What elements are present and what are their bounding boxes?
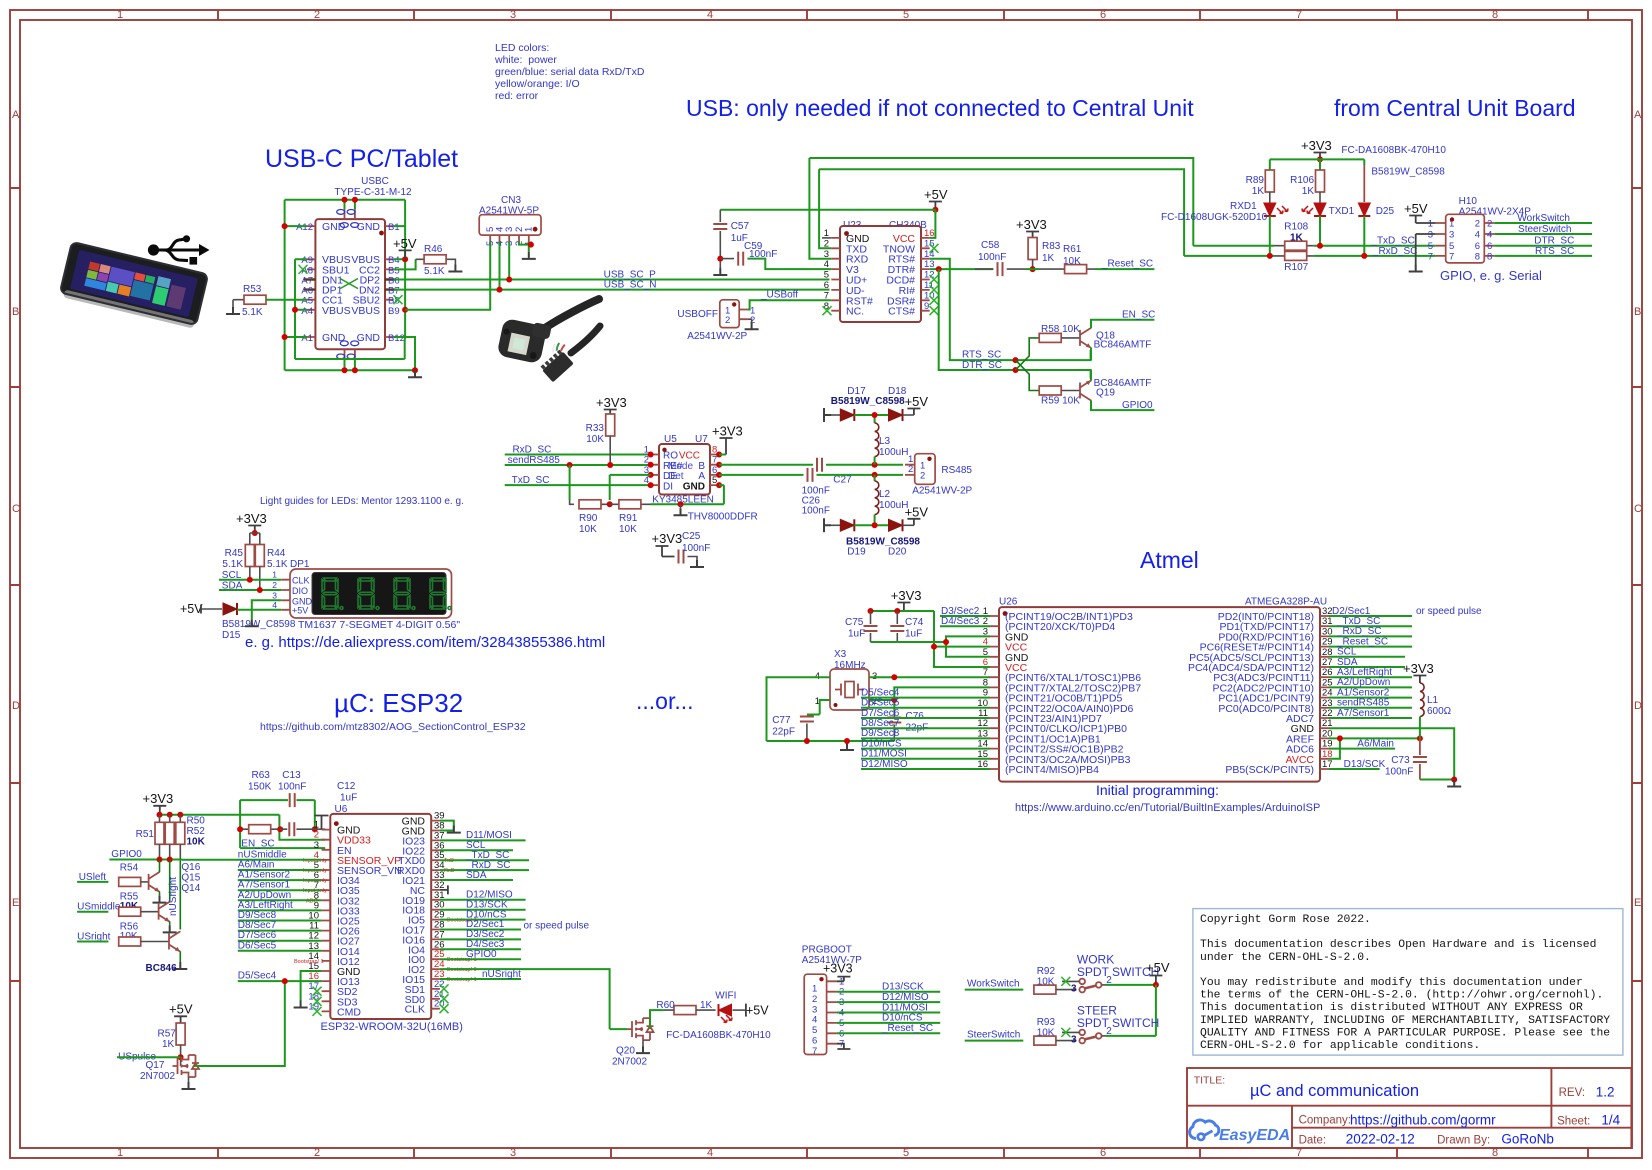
svg-text:1: 1 xyxy=(117,1147,123,1159)
svg-text:SPDT SWITCH: SPDT SWITCH xyxy=(1077,1016,1159,1030)
svg-text:C25: C25 xyxy=(682,531,701,542)
svg-text:2: 2 xyxy=(1475,219,1480,230)
capacitor C59 xyxy=(720,241,831,269)
power +5V H10 xyxy=(1404,201,1436,223)
svg-text:the terms of the CERN-OHL-S-2.: the terms of the CERN-OHL-S-2.0. (http:/… xyxy=(1200,990,1603,1002)
svg-text:5: 5 xyxy=(903,1147,909,1159)
svg-text:100nF: 100nF xyxy=(978,252,1006,263)
power +5V D20 xyxy=(905,505,929,526)
svg-text:GPIO0: GPIO0 xyxy=(466,949,497,960)
svg-text:R90: R90 xyxy=(579,513,598,524)
svg-text:Company:: Company: xyxy=(1299,1115,1351,1127)
power +3V3 atmega xyxy=(891,588,922,611)
resistor R90 xyxy=(570,500,610,535)
svg-text:C57: C57 xyxy=(731,221,750,232)
svg-text:B5819W_C8598: B5819W_C8598 xyxy=(222,619,296,630)
svg-text:100nF: 100nF xyxy=(278,782,306,793)
svg-text:WorkSwitch: WorkSwitch xyxy=(1517,213,1570,224)
svg-text:B: B xyxy=(1634,306,1641,318)
svg-text:R83: R83 xyxy=(1042,241,1061,252)
svg-text:+3V3: +3V3 xyxy=(652,531,683,546)
svg-text:R58 10K: R58 10K xyxy=(1041,324,1080,335)
svg-text:A9: A9 xyxy=(301,255,313,266)
svg-text:+3V3: +3V3 xyxy=(143,791,174,806)
svg-text:10K: 10K xyxy=(579,524,597,535)
connector RS485 A2541WV-2P xyxy=(905,454,973,497)
wire TxD_SC row xyxy=(505,484,651,486)
tablet photo xyxy=(59,242,208,329)
svg-text:yellow/orange: I/O: yellow/orange: I/O xyxy=(495,78,580,90)
resistor R33 xyxy=(586,414,615,465)
connector USBOFF A2541WV-2P xyxy=(677,300,755,342)
svg-text:1: 1 xyxy=(812,984,817,995)
svg-text:RS485: RS485 xyxy=(941,465,972,476)
svg-text:3: 3 xyxy=(1071,1035,1077,1046)
power +3V3 display xyxy=(236,511,267,533)
svg-text:VCC: VCC xyxy=(679,451,700,462)
svg-text:9: 9 xyxy=(924,301,929,312)
svg-text:A: A xyxy=(1634,109,1642,121)
svg-text:+3V3: +3V3 xyxy=(596,395,627,410)
svg-text:Atmel: Atmel xyxy=(1140,547,1199,573)
wire RxD_SC row xyxy=(505,454,651,456)
capacitor C73 xyxy=(1419,738,1421,755)
svg-text:GPIO0: GPIO0 xyxy=(111,849,142,860)
svg-text:4: 4 xyxy=(1487,230,1492,241)
wire crystal pin1 xyxy=(820,700,830,715)
svg-text:2: 2 xyxy=(908,464,913,475)
no-connect A8 xyxy=(299,265,308,274)
svg-text:NC.: NC. xyxy=(846,306,864,318)
svg-text:Q16: Q16 xyxy=(181,862,200,873)
svg-text:USB_SC_N: USB_SC_N xyxy=(604,280,657,291)
ground D19 xyxy=(824,518,831,532)
transistor Q19 BC846AMTF xyxy=(1080,381,1091,401)
svg-text:DI: DI xyxy=(663,481,673,492)
svg-text:...or...: ...or... xyxy=(636,688,694,714)
svg-text:A: A xyxy=(12,109,20,121)
power +3V3 U7 xyxy=(712,424,743,455)
svg-text:10K: 10K xyxy=(187,837,206,848)
capacitor C12 xyxy=(280,828,325,830)
wire: TXD vertical loop xyxy=(819,169,1184,256)
svg-text:R46: R46 xyxy=(424,244,443,255)
svg-text:Date:: Date: xyxy=(1299,1135,1327,1147)
resistor R108 xyxy=(1274,222,1314,251)
ground usbc bottom xyxy=(408,370,422,377)
svg-text:FC-DA1608BK-470H10: FC-DA1608BK-470H10 xyxy=(1341,145,1446,156)
svg-text:D4/Sec3: D4/Sec3 xyxy=(941,616,980,627)
svg-text:3: 3 xyxy=(510,1147,516,1159)
resistor R57 xyxy=(176,1023,185,1045)
svg-text:+5V: +5V xyxy=(169,1002,193,1017)
svg-text:USB: only needed if not connec: USB: only needed if not connected to Cen… xyxy=(686,95,1194,121)
svg-text:5: 5 xyxy=(812,1025,817,1036)
svg-text:R45: R45 xyxy=(225,548,244,559)
wire: USBoff xyxy=(748,300,832,309)
svg-text:C: C xyxy=(12,503,20,515)
svg-text:TXD1: TXD1 xyxy=(1329,206,1355,217)
wire: swap cross xyxy=(1016,338,1040,391)
svg-text:D12/MISO: D12/MISO xyxy=(882,992,929,1003)
svg-text:https://www.arduino.cc/en/Tuto: https://www.arduino.cc/en/Tutorial/Built… xyxy=(1015,802,1320,814)
wire: USB_SC_P line xyxy=(394,279,830,281)
resistor R58 xyxy=(1039,324,1080,342)
svg-text:5.1K: 5.1K xyxy=(222,559,243,570)
svg-text:X3: X3 xyxy=(834,649,847,660)
svg-text:3: 3 xyxy=(812,1004,817,1015)
svg-text:Q15: Q15 xyxy=(181,872,200,883)
svg-text:3: 3 xyxy=(1071,984,1077,995)
svg-text:_USBoff: _USBoff xyxy=(760,289,798,300)
svg-text:RO: RO xyxy=(663,451,678,462)
svg-text:6: 6 xyxy=(1100,9,1106,21)
svg-text:B5819W_C8598: B5819W_C8598 xyxy=(1371,167,1445,178)
junction dots usbc xyxy=(342,197,348,203)
svg-text:D13/SCK: D13/SCK xyxy=(882,982,924,993)
svg-text:SteerSwitch: SteerSwitch xyxy=(967,1029,1020,1040)
svg-text:1: 1 xyxy=(824,228,829,239)
svg-text:2: 2 xyxy=(920,471,925,482)
svg-text:A1: A1 xyxy=(301,333,313,344)
svg-text:1.2: 1.2 xyxy=(1596,1085,1615,1100)
wire 3v3 rail xyxy=(160,815,326,840)
diode D25 xyxy=(1363,165,1365,202)
wires U6 left xyxy=(182,860,322,1001)
resistor R60 xyxy=(650,1010,664,1029)
svg-text:L1: L1 xyxy=(1427,695,1439,706)
svg-text:Q19: Q19 xyxy=(1096,388,1115,399)
svg-text:µC and communication: µC and communication xyxy=(1250,1082,1419,1100)
svg-text:ATMEGA328P-AU: ATMEGA328P-AU xyxy=(1245,597,1327,608)
svg-text:3: 3 xyxy=(272,590,277,600)
power +3V3 L1 xyxy=(1403,661,1434,683)
power +5V R57 xyxy=(169,1002,193,1024)
capacitor C25 xyxy=(652,531,711,564)
svg-text:2022-02-12: 2022-02-12 xyxy=(1346,1132,1415,1147)
svg-text:EasyEDA: EasyEDA xyxy=(1219,1127,1290,1144)
inductor L2 xyxy=(875,475,909,525)
svg-text:+3V3: +3V3 xyxy=(823,962,853,976)
svg-text:2: 2 xyxy=(725,315,730,326)
svg-text:Q17: Q17 xyxy=(146,1060,165,1071)
svg-text:TYPE-C-31-M-12: TYPE-C-31-M-12 xyxy=(334,187,412,198)
capacitor C26 xyxy=(808,468,813,482)
wire USpulse xyxy=(117,1056,181,1058)
wire: usbc left bus1 xyxy=(285,200,307,371)
wire: RxD_SC row xyxy=(1184,255,1436,257)
svg-text:R89: R89 xyxy=(1246,175,1265,186)
resistor R91 xyxy=(610,500,651,535)
svg-text:TITLE:: TITLE: xyxy=(1194,1075,1226,1087)
resistor R46 xyxy=(394,244,456,277)
svg-text:1: 1 xyxy=(272,570,277,580)
svg-text:1K: 1K xyxy=(162,1039,175,1050)
svg-text:FC-DA1608BK-470H10: FC-DA1608BK-470H10 xyxy=(666,1030,771,1041)
svg-text:USBC: USBC xyxy=(361,176,389,187)
svg-text:1: 1 xyxy=(117,9,123,21)
wire XTAL2 to crystal pin2 and C76 xyxy=(869,687,990,710)
wire gnd node U5 pin5 xyxy=(651,485,724,504)
svg-text:2: 2 xyxy=(314,9,320,21)
capacitor C77 xyxy=(807,714,820,716)
svg-text:GND: GND xyxy=(683,481,705,492)
no-connects U23 right xyxy=(930,244,939,253)
svg-text:U26: U26 xyxy=(999,597,1018,608)
svg-text:CERN-OHL-S-2.0 for applicable: CERN-OHL-S-2.0 for applicable conditions… xyxy=(1200,1040,1480,1052)
svg-text:D13/SCK: D13/SCK xyxy=(1344,759,1386,770)
svg-text:USB-C PC/Tablet: USB-C PC/Tablet xyxy=(265,145,458,173)
pin names U6 xyxy=(337,816,425,1019)
svg-text:D19: D19 xyxy=(847,547,866,558)
svg-text:100nF: 100nF xyxy=(749,249,777,260)
svg-text:B: B xyxy=(12,306,19,318)
power +5V at B4 xyxy=(393,236,417,259)
svg-text:PB5(SCK/PCINT5): PB5(SCK/PCINT5) xyxy=(1225,764,1314,776)
svg-text:EN_SC: EN_SC xyxy=(1122,310,1155,321)
wire crystal pin4 left xyxy=(767,677,895,741)
svg-text:+3V3: +3V3 xyxy=(891,588,922,603)
wire gnd stub at pin1 xyxy=(315,828,322,830)
svg-text:1K: 1K xyxy=(1042,253,1055,264)
svg-text:GND: GND xyxy=(322,332,346,344)
capacitor C57 xyxy=(713,210,749,268)
pin names U26 xyxy=(1005,611,1314,776)
svg-text:100nF: 100nF xyxy=(1385,767,1413,778)
svg-text:R61: R61 xyxy=(1063,244,1082,255)
resistor R63 xyxy=(240,828,280,830)
wire: RXD vertical loop xyxy=(809,158,1193,259)
wire caps gnd to chip xyxy=(871,641,947,643)
7 segment digits xyxy=(322,578,451,610)
svg-text:R44: R44 xyxy=(267,548,286,559)
ground crystal xyxy=(840,743,854,750)
power +3V3 esp xyxy=(143,791,174,815)
svg-text:4: 4 xyxy=(707,9,713,21)
svg-text:+3V3: +3V3 xyxy=(712,424,743,439)
svg-text:+3V3: +3V3 xyxy=(1301,138,1332,153)
capacitor C76 xyxy=(893,710,895,718)
svg-text:5.1K: 5.1K xyxy=(424,266,445,277)
ic U26 ATMEGA328P-AU xyxy=(999,597,1327,782)
power +3V3 leds xyxy=(1301,138,1332,159)
svg-text:Q20: Q20 xyxy=(616,1046,635,1057)
svg-text:10K: 10K xyxy=(1063,256,1081,267)
wire SDA xyxy=(219,589,281,591)
svg-text:EN_SC: EN_SC xyxy=(241,838,274,849)
power +5V above U23 xyxy=(924,187,948,210)
svg-text:_Reset_SC: _Reset_SC xyxy=(881,1023,933,1034)
capacitor C58 xyxy=(975,240,1026,276)
svg-text:1K: 1K xyxy=(1302,186,1315,197)
svg-text:GoRoNb: GoRoNb xyxy=(1501,1132,1554,1147)
svg-text:5.1K: 5.1K xyxy=(242,307,263,318)
svg-text:1K: 1K xyxy=(700,1000,713,1011)
svg-text:+3V3: +3V3 xyxy=(1403,661,1434,676)
svg-text:(PCINT4/MISO)PB4: (PCINT4/MISO)PB4 xyxy=(1005,764,1099,776)
svg-text:R92: R92 xyxy=(1037,966,1056,977)
led TXD1 xyxy=(1314,203,1326,216)
wire: DTR to reset xyxy=(930,268,994,270)
svg-text:R57: R57 xyxy=(158,1029,177,1040)
svg-text:SDA: SDA xyxy=(466,870,487,881)
svg-text:C58: C58 xyxy=(981,240,1000,251)
svg-text:4: 4 xyxy=(812,1015,817,1026)
svg-text:C27: C27 xyxy=(833,474,852,485)
power +3V3 prgboot xyxy=(823,962,853,982)
svg-text:2: 2 xyxy=(812,994,817,1005)
svg-text:4: 4 xyxy=(272,600,277,610)
svg-text:R106: R106 xyxy=(1290,175,1314,186)
svg-text:_Reset_SC: _Reset_SC xyxy=(1101,259,1153,270)
svg-text:6: 6 xyxy=(1100,1147,1106,1159)
resistor R50 xyxy=(165,822,174,844)
usb cable photo xyxy=(497,299,600,382)
svg-text:Sheet:: Sheet: xyxy=(1557,1116,1590,1128)
svg-text:R53: R53 xyxy=(243,284,262,295)
wire Q17 drain to D5/Sec4 xyxy=(195,981,285,1066)
note: LED colors legend xyxy=(494,42,645,102)
ic U6 ESP32-WROOM-32U xyxy=(330,804,431,1019)
svg-text:1: 1 xyxy=(1428,219,1433,230)
crystal X3 xyxy=(815,649,878,710)
svg-text:1uF: 1uF xyxy=(340,793,357,804)
svg-text:DIO: DIO xyxy=(292,586,308,596)
svg-text:GND: GND xyxy=(357,221,381,233)
svg-text:+3V3: +3V3 xyxy=(1016,217,1047,232)
svg-text:+5V: +5V xyxy=(393,236,417,251)
ground R53 xyxy=(226,307,240,314)
svg-text:R59 10K: R59 10K xyxy=(1041,396,1080,407)
wire EN RC net xyxy=(240,800,325,848)
svg-text:2: 2 xyxy=(272,580,277,590)
svg-text:GPIO, e. g. Serial: GPIO, e. g. Serial xyxy=(1440,268,1542,283)
wire: RTS vertical xyxy=(930,259,1091,360)
svg-text:C76: C76 xyxy=(906,711,925,722)
svg-text:R107: R107 xyxy=(1284,262,1308,273)
ic U5 U7 KY3485LEEN/THV8000DDFR xyxy=(644,434,722,495)
svg-text:R60: R60 xyxy=(656,1000,675,1011)
svg-text:RTS_SC: RTS_SC xyxy=(1535,246,1574,257)
svg-text:D12/MISO: D12/MISO xyxy=(861,759,908,770)
wire: usbc bottom xyxy=(285,337,415,370)
svg-text:+5V: +5V xyxy=(905,394,929,409)
svg-text:R91: R91 xyxy=(619,513,638,524)
svg-text:IMPLIED WARRANTY, INCLUDING OF: IMPLIED WARRANTY, INCLUDING OF MERCHANTA… xyxy=(1200,1015,1610,1027)
power +3V3 R33 xyxy=(596,395,627,414)
resistor R44 xyxy=(255,545,264,567)
connector PRGBOOT A2541WV-7P xyxy=(802,945,862,1057)
no-connect B8 xyxy=(394,295,403,304)
svg-text:L3: L3 xyxy=(879,436,891,447)
wire: +5V rail to VCC and C57 xyxy=(720,210,935,238)
no-connects U6 xyxy=(313,987,322,996)
resistor R107 xyxy=(1274,251,1314,273)
svg-text:1K: 1K xyxy=(1252,186,1265,197)
display DP1 TM1637 xyxy=(272,559,451,618)
inductor L3 xyxy=(875,415,909,465)
svg-text:4: 4 xyxy=(707,1147,713,1159)
wire: TxD_SC row xyxy=(1193,245,1435,247)
svg-text:D25: D25 xyxy=(1376,206,1395,217)
resistor R61 xyxy=(1026,244,1154,274)
svg-text:Copyright Gorm Rose 2022.: Copyright Gorm Rose 2022. xyxy=(1200,914,1371,926)
wire: cn3 pin3 to P line xyxy=(508,242,510,280)
svg-text:µC: ESP32: µC: ESP32 xyxy=(334,688,463,718)
svg-text:7: 7 xyxy=(1296,9,1302,21)
svg-text:https://github.com/mtz8302/AOG: https://github.com/mtz8302/AOG_SectionCo… xyxy=(260,721,526,733)
svg-text:Drawn By:: Drawn By: xyxy=(1437,1135,1490,1147)
svg-text:D: D xyxy=(12,700,20,712)
svg-text:R52: R52 xyxy=(187,826,206,837)
capacitor C13 xyxy=(290,793,295,807)
svg-text:TM1637 7-SEGMET 4-DIGIT 0.56": TM1637 7-SEGMET 4-DIGIT 0.56" xyxy=(298,619,460,631)
svg-text:DTR_SC: DTR_SC xyxy=(962,360,1002,371)
svg-text:10K: 10K xyxy=(619,524,637,535)
wire: DTR vertical xyxy=(939,269,1091,378)
power +5V switches xyxy=(1146,960,1170,985)
svg-text:L2: L2 xyxy=(879,489,891,500)
svg-text:C12: C12 xyxy=(337,781,356,792)
capacitor C74 xyxy=(896,611,898,624)
wires U6 right + labels xyxy=(440,821,610,1030)
svg-text:5: 5 xyxy=(903,9,909,21)
svg-text:BC846: BC846 xyxy=(146,963,178,974)
svg-text:7: 7 xyxy=(1428,251,1433,262)
svg-text:B12: B12 xyxy=(388,333,405,344)
svg-text:2: 2 xyxy=(314,1147,320,1159)
svg-text:C74: C74 xyxy=(905,617,924,628)
svg-text:D6/Sec5: D6/Sec5 xyxy=(238,940,277,951)
ic U23 CH340B xyxy=(822,220,935,322)
svg-text:e. g. https://de.aliexpress.co: e. g. https://de.aliexpress.com/item/328… xyxy=(245,634,605,651)
svg-text:R93: R93 xyxy=(1037,1017,1056,1028)
svg-text:CLK: CLK xyxy=(292,576,310,586)
svg-text:or speed pulse: or speed pulse xyxy=(1416,606,1482,617)
svg-text:E: E xyxy=(12,897,19,909)
svg-text:A6/Main: A6/Main xyxy=(1357,738,1394,749)
svg-text:8: 8 xyxy=(1492,9,1498,21)
wire: USB_SC_N line xyxy=(394,289,830,291)
wire: usbc left bus2 xyxy=(295,259,405,359)
wire GPIO0 xyxy=(109,859,182,861)
svg-text:100nF: 100nF xyxy=(682,543,710,554)
svg-text:1/4: 1/4 xyxy=(1601,1113,1620,1128)
svg-text:nUSright: nUSright xyxy=(168,877,179,916)
svg-text:22pF: 22pF xyxy=(772,727,795,738)
wire crystal pin3 to XTAL1 xyxy=(869,676,990,678)
svg-text:red: error: red: error xyxy=(495,90,539,102)
transistor Q17 2N7002 xyxy=(173,1055,200,1077)
svg-text:SteerSwitch: SteerSwitch xyxy=(1518,224,1571,235)
resistor R89 xyxy=(1246,170,1275,203)
wire: cn3 pin2+1 to gnd xyxy=(519,242,531,252)
ground D17 xyxy=(824,408,831,422)
svg-text:E: E xyxy=(1634,897,1641,909)
svg-text:C: C xyxy=(1634,503,1642,515)
nc marker pin32 xyxy=(440,885,448,894)
svg-text:THV8000DDFR: THV8000DDFR xyxy=(688,512,758,523)
resistor R51 xyxy=(155,822,164,844)
svg-text:VBUS: VBUS xyxy=(351,305,380,317)
svg-text:B1: B1 xyxy=(388,222,400,233)
svg-text:7: 7 xyxy=(812,1046,817,1057)
svg-text:This documentation describes O: This documentation describes Open Hardwa… xyxy=(1200,939,1596,951)
svg-text:2N7002: 2N7002 xyxy=(612,1057,647,1068)
svg-text:LED colors:: LED colors: xyxy=(495,42,549,54)
wires U26 right nets xyxy=(1329,616,1454,780)
svg-text:100nF: 100nF xyxy=(802,506,830,517)
